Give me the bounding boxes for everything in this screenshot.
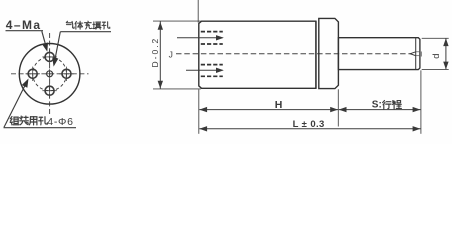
- hole N (tapped hole 4-Ma): [42, 50, 56, 64]
- underline of assembly label: [4, 127, 77, 129]
- hole E: [59, 67, 73, 81]
- thread hint at rod face: [420, 52, 422, 57]
- leader gas fill to center hole: [54, 32, 60, 65]
- d bottom extension line: [422, 68, 449, 70]
- hole S: [42, 84, 56, 98]
- svg-text:S:: S:: [372, 99, 382, 110]
- outer circle of cylinder end face: [19, 44, 80, 105]
- leader 4-Ma to top hole: [42, 31, 47, 50]
- svg-text:d: d: [431, 53, 442, 58]
- H dimension line: [199, 109, 338, 111]
- piston rod: [338, 38, 420, 70]
- label assembly holes (CJK) 组装用孔: [10, 116, 47, 125]
- horizontal centerline of end view: [11, 73, 89, 75]
- D bottom extension line: [153, 88, 201, 90]
- collar / guide bushing: [319, 18, 339, 88]
- underline of gas fill label: [60, 31, 111, 33]
- body outline (main tube): [199, 21, 316, 88]
- svg-text:H: H: [275, 99, 283, 111]
- left extension line (below body): [198, 90, 200, 134]
- underline of 4-Ma: [6, 30, 44, 32]
- vertical centerline of end view: [49, 33, 51, 114]
- depth arrow top hole: [177, 37, 223, 39]
- middle extension line (below collar): [337, 89, 339, 126]
- rod tip chamfer line: [415, 38, 417, 70]
- depth arrow bottom hole: [186, 69, 223, 71]
- vertical extension line above left face: [197, 0, 199, 23]
- d dimension line with arrows: [445, 38, 447, 69]
- d top extension line: [422, 37, 449, 39]
- groove line at tube end: [315, 21, 317, 88]
- leader assembly label to left hole: [4, 83, 26, 127]
- L dimension line: [199, 128, 420, 130]
- svg-text:D-0.2: D-0.2: [150, 37, 160, 68]
- tapped hole top (hidden lines): [201, 32, 223, 44]
- axis centerline: [176, 53, 411, 55]
- center hole (gas fill port): [45, 69, 54, 78]
- svg-text:L ± 0.3: L ± 0.3: [293, 119, 325, 130]
- bolt circle (dashed): [33, 57, 67, 91]
- S dimension line: [339, 109, 421, 111]
- D top extension line: [153, 20, 201, 22]
- center drill cone at rod tip: [410, 52, 416, 56]
- right extension line (below rod tip): [420, 70, 422, 134]
- D dimension line with arrows: [159, 21, 161, 89]
- tapped hole bottom (hidden lines): [201, 65, 223, 77]
- svg-text:4-Φ6: 4-Φ6: [47, 116, 73, 128]
- hole W (assembly hole): [26, 67, 40, 81]
- label gas fill hole (CJK): [66, 21, 110, 29]
- svg-text:4–Ma: 4–Ma: [6, 18, 42, 32]
- svg-text:J: J: [169, 49, 173, 59]
